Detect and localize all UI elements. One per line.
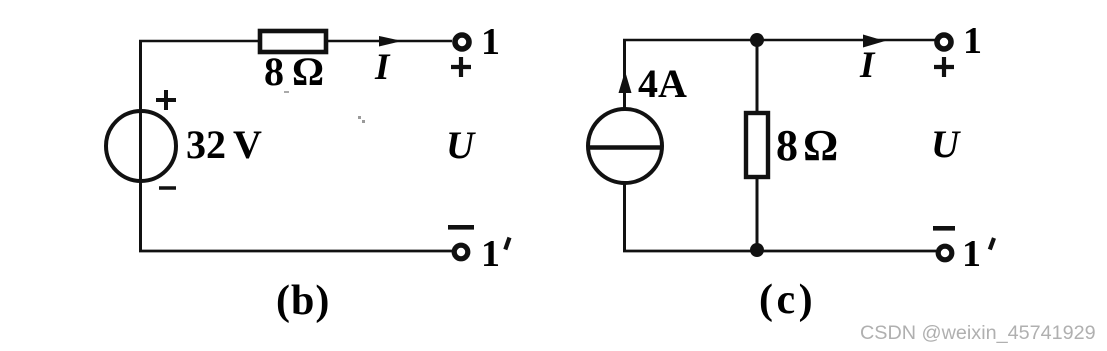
resistor R1 (8 ohm, series)	[260, 31, 326, 52]
svg-text:Ω: Ω	[803, 121, 838, 170]
label: + of U (c)	[934, 57, 954, 77]
label: + polarity of VS1	[156, 90, 176, 110]
wire: resistor branch bottom (c)	[756, 177, 759, 251]
terminal 1 (c)	[937, 35, 951, 49]
current source IS1 bar	[590, 145, 660, 150]
terminal 1' (c)	[938, 246, 952, 260]
junction dot bottom (c)	[750, 243, 764, 257]
label: - of U (b)	[448, 225, 474, 230]
wire: left vertical (b)	[139, 40, 142, 252]
svg-text:(c): (c)	[759, 277, 816, 323]
resistor R2 (8 ohm, shunt)	[746, 113, 768, 177]
wire: top-left horizontal (b)	[139, 40, 260, 43]
svg-text:1: 1	[481, 233, 500, 275]
svg-text:U: U	[931, 123, 961, 166]
terminal 1 (b)	[455, 35, 469, 49]
label: - polarity of VS1	[159, 186, 176, 190]
svg-text:8: 8	[264, 49, 284, 94]
current source IS1 circle	[588, 109, 662, 183]
svg-text:4A: 4A	[638, 61, 687, 106]
svg-text:I: I	[374, 47, 391, 88]
svg-text:32: 32	[186, 122, 226, 167]
wire: bottom horizontal (c)	[623, 250, 936, 253]
scan speck under 8 ohm (b)	[284, 91, 289, 93]
current arrow I (c)	[863, 35, 885, 48]
svg-text:V: V	[233, 122, 262, 167]
svg-text:1: 1	[962, 233, 981, 275]
svg-text:I: I	[859, 45, 876, 86]
wire: below current source (c)	[623, 183, 626, 252]
wire: bottom horizontal (b)	[139, 250, 453, 253]
current arrow of IS1 (up)	[619, 71, 632, 93]
junction dot top (c)	[750, 33, 764, 47]
voltage source VS1 circle	[106, 111, 176, 181]
current arrow I (b)	[379, 36, 402, 47]
svg-text:1: 1	[963, 20, 982, 62]
svg-text:Ω: Ω	[292, 49, 324, 94]
wire: top horizontal (c)	[623, 39, 935, 42]
wire: resistor branch top (c)	[756, 40, 759, 113]
svg-text:1: 1	[481, 21, 500, 63]
svg-text:8: 8	[776, 121, 798, 170]
svg-text:CSDN @weixin_45741929: CSDN @weixin_45741929	[860, 322, 1096, 344]
wire: through voltage source	[139, 111, 142, 181]
label: - of U (c)	[933, 226, 955, 231]
scan speck near (b)	[358, 116, 361, 119]
wire: left vertical (c)	[623, 39, 626, 109]
terminal 1' (b)	[454, 245, 468, 259]
wire: resistor to terminal 1	[326, 40, 452, 43]
svg-text:(b): (b)	[276, 278, 330, 324]
svg-text:U: U	[446, 124, 476, 167]
label: + of U (b)	[451, 57, 471, 77]
